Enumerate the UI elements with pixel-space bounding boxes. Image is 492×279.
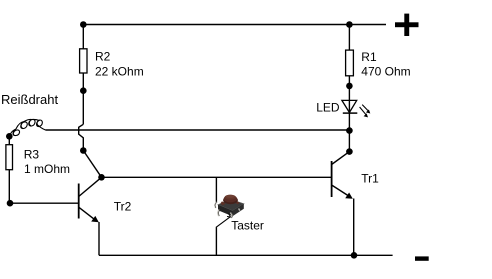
wire mid rail (coil to LED cathode) [46, 129, 350, 131]
node B top-right junction [346, 21, 353, 28]
wire top rail [83, 24, 386, 26]
transistor Tr2 [79, 177, 102, 222]
svg-text:R1: R1 [361, 50, 377, 64]
switch lever barb [227, 214, 231, 217]
node A top-left junction [80, 21, 87, 28]
node bottom junction [351, 252, 358, 259]
svg-text:1 mOhm: 1 mOhm [24, 162, 70, 176]
wire node to Tr1 base [102, 176, 332, 178]
node R3 bottom pin dot [7, 200, 14, 207]
wire Taster upper lead [215, 177, 217, 203]
node Tr1 collector junction [346, 148, 353, 155]
wire R3 lower lead [8, 170, 10, 204]
resistor R2 [80, 49, 87, 73]
svg-text:470 Ohm: 470 Ohm [361, 65, 410, 79]
plus terminal [395, 14, 419, 36]
transistor Tr1 [332, 152, 353, 199]
svg-text:Tr2: Tr2 [114, 200, 132, 214]
node R2 bottom pin dot [80, 87, 87, 94]
LED light arrow 2 [360, 107, 368, 117]
svg-text:Reißdraht: Reißdraht [1, 92, 58, 107]
svg-text:Tr1: Tr1 [361, 172, 379, 186]
wire LED to Tr1 collector node [348, 131, 350, 152]
diode LED [342, 100, 357, 130]
svg-text:R3: R3 [24, 148, 40, 162]
wire Tr2 emitter down [98, 222, 100, 255]
node R1 bottom pin dot [346, 83, 353, 90]
minus terminal [415, 256, 429, 260]
svg-text:22 kOhm: 22 kOhm [95, 65, 144, 79]
wire bottom rail [99, 254, 393, 256]
wire Tr2 base [10, 202, 78, 204]
svg-text:LED: LED [316, 101, 340, 115]
resistor R3 [6, 145, 13, 170]
wire R2 lower lead [82, 73, 84, 124]
wire R1 upper lead [348, 25, 350, 51]
pushbutton Taster photo [215, 195, 244, 218]
wire R3 upper lead [8, 136, 10, 144]
resistor R1 [346, 50, 354, 76]
wire Tr1 emitter down [353, 199, 355, 256]
svg-text:R2: R2 [95, 50, 111, 64]
svg-text:Taster: Taster [231, 219, 264, 233]
node bend dot [80, 147, 87, 154]
wire R2 upper lead [82, 25, 84, 49]
node coil-R3 dot [6, 133, 13, 140]
wire diagonal to Tr2 collector node [83, 151, 101, 178]
fuse wire coil [10, 119, 46, 135]
node Tr2 collector junction [98, 174, 105, 181]
wire Taster lower lead [215, 227, 217, 255]
node LED cathode junction [346, 127, 353, 134]
LED light arrow 1 [362, 105, 370, 114]
switch lever [216, 217, 230, 227]
wire crossover hop [79, 124, 84, 150]
wire R1 lower lead [348, 76, 350, 101]
